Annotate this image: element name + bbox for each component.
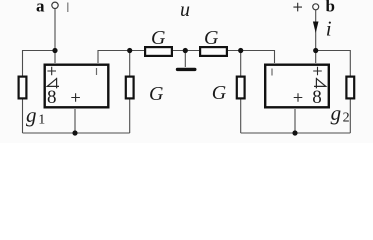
svg-text:G: G xyxy=(212,82,227,104)
wire: resistor R3 bottom to bus xyxy=(240,100,242,134)
ground xyxy=(178,68,195,71)
svg-text:1: 1 xyxy=(38,113,45,128)
wire: terminal a down to node xyxy=(54,9,56,64)
svg-text:a: a xyxy=(36,0,45,15)
svg-text:g: g xyxy=(331,101,342,125)
resistor R1 (left vertical) xyxy=(19,77,27,99)
wire: g2 box bottom terminal down to bus xyxy=(294,109,296,133)
wire: g1 box bottom terminal down to bus xyxy=(74,109,76,133)
svg-text:8: 8 xyxy=(312,87,322,108)
wire: node a left and down to resistor R1 xyxy=(23,51,56,76)
svg-text:G: G xyxy=(149,83,164,105)
resistor R4 (right vertical) xyxy=(346,77,354,99)
wire: lead between G resistors xyxy=(173,50,199,52)
node at b xyxy=(313,48,318,53)
U2 minus mark (top-left input) xyxy=(271,69,273,76)
node bottom left bus xyxy=(72,130,77,135)
node at a xyxy=(52,48,57,53)
U2 plus mark (bottom output) xyxy=(294,93,303,101)
wire: right bottom bus xyxy=(241,132,351,134)
node right G junction xyxy=(238,48,243,53)
resistor R3 (inner-right vertical G) xyxy=(237,77,245,99)
wire: left bottom bus xyxy=(23,132,130,134)
U1 triangle-infinity symbol xyxy=(47,78,59,89)
svg-text:2: 2 xyxy=(343,111,350,126)
wire: resistor R1 bottom down to left bus xyxy=(22,100,24,134)
wire: g1 box top-right terminal up and right to node xyxy=(98,51,144,64)
svg-text:b: b xyxy=(326,0,335,16)
svg-text:g: g xyxy=(26,103,37,127)
wire: terminal b down through g2 box top-right terminal xyxy=(315,10,317,63)
wire: resistor R3 top stub xyxy=(240,51,242,76)
wire: resistor R4 bottom down to right bus xyxy=(349,100,351,134)
label + at b xyxy=(293,3,302,12)
resistor G1 (horizontal) xyxy=(145,47,172,56)
node bottom right bus xyxy=(292,130,297,135)
resistor R2 (inner-left vertical G) xyxy=(126,77,134,99)
current arrow i xyxy=(313,22,319,34)
terminal a circle xyxy=(52,2,58,8)
svg-text:8: 8 xyxy=(47,87,57,108)
wire: node b right and down to resistor R4 xyxy=(316,51,351,76)
U1 plus mark (bottom output) xyxy=(71,93,80,101)
wire: ground stub xyxy=(184,51,186,68)
svg-text:G: G xyxy=(151,27,166,49)
wire: right lead of second G to g2 box top-left terminal xyxy=(228,51,275,64)
svg-text:G: G xyxy=(204,27,219,49)
U2 plus mark (top input) xyxy=(313,67,322,75)
terminal b circle xyxy=(313,4,319,10)
svg-text:i: i xyxy=(326,16,332,40)
U1 plus mark (top input) xyxy=(47,67,56,75)
svg-text:u: u xyxy=(180,0,190,21)
wire: resistor R2 top stub xyxy=(129,51,131,76)
U2 triangle-infinity symbol (mirrored) xyxy=(314,78,326,89)
resistor G2 (horizontal) xyxy=(200,47,227,56)
node left G junction xyxy=(127,48,132,53)
op-amp U2 box xyxy=(265,65,329,108)
polarity bar at a xyxy=(67,3,69,13)
U1 minus mark (top-right input) xyxy=(96,68,98,75)
node middle between G resistors xyxy=(183,48,188,53)
wire: resistor R2 bottom to bus xyxy=(129,100,131,134)
op-amp U1 box xyxy=(45,65,109,108)
